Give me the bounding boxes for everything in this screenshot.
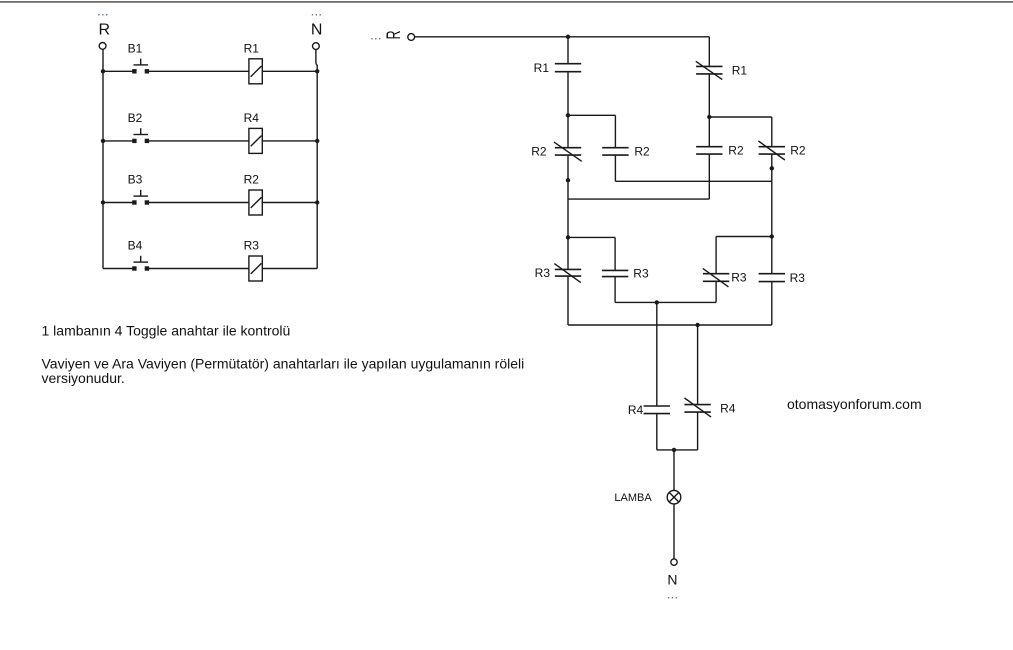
- wire D bottom: [771, 282, 773, 325]
- svg-text:R1: R1: [244, 41, 260, 55]
- junction A split: [566, 113, 570, 117]
- svg-text:R3: R3: [731, 271, 747, 285]
- junction top feeder at A: [566, 35, 570, 39]
- junction D split 2: [770, 234, 774, 238]
- contact R4 NO on E: [644, 405, 670, 407]
- contact R3 NO on B2: [602, 269, 628, 271]
- wire C2 upper: [715, 237, 717, 274]
- svg-text:R3: R3: [244, 239, 260, 253]
- wire N rail vertical: [316, 65, 318, 269]
- svg-text:R3: R3: [790, 271, 806, 285]
- svg-text:R4: R4: [720, 402, 736, 416]
- relay coil R4: [249, 128, 262, 153]
- junction C split: [707, 115, 711, 119]
- wire C lower: [708, 154, 710, 199]
- junction N rail rung 1: [315, 69, 319, 73]
- wire R rail vertical: [102, 49, 104, 268]
- wire B upper: [614, 115, 616, 147]
- wire F upper: [697, 325, 699, 405]
- wire B lower: [614, 155, 616, 181]
- junction R3 merge at E: [655, 300, 659, 304]
- relay coil R2: [249, 190, 262, 215]
- wire R3 merge horizontal: [615, 301, 716, 303]
- svg-text:R4: R4: [628, 403, 644, 417]
- svg-text:...: ...: [667, 585, 679, 601]
- terminal R (right network): [408, 34, 415, 41]
- wire rung 4 right segment: [262, 268, 317, 270]
- terminal N (left ladder): [313, 43, 320, 50]
- contact R3 NO on D: [759, 273, 785, 275]
- contact R2 NC on A: [555, 147, 581, 149]
- wire rung 2 right segment: [262, 140, 317, 142]
- wire E upper: [656, 302, 658, 406]
- cross wire A to C: [568, 198, 709, 200]
- wire lamp stem lower: [673, 504, 675, 559]
- pushbutton B3: [132, 190, 149, 205]
- wire rung 1 mid segment: [147, 70, 249, 72]
- junction R rail rung 3: [101, 200, 105, 204]
- junction A segment join: [566, 178, 570, 182]
- wire C2 lower: [715, 281, 717, 302]
- junction lamp stem: [672, 448, 676, 452]
- terminal R (left ladder): [99, 43, 106, 50]
- junction A split 2: [566, 235, 570, 239]
- wire N terminal jog: [315, 50, 317, 64]
- wire A-B split horizontal: [568, 114, 615, 116]
- wire rung 1 left segment: [103, 70, 134, 72]
- wire A upper: [567, 37, 569, 64]
- wire C-D split horizontal: [709, 116, 772, 118]
- wire D below R2: [771, 154, 773, 274]
- wire B2 lower: [614, 277, 616, 303]
- wire D-C2 split horizontal: [716, 236, 772, 238]
- svg-text:LAMBA: LAMBA: [614, 492, 652, 504]
- window top border line: [0, 1, 1013, 3]
- wire rung 4 mid segment: [147, 268, 249, 270]
- wire F lower: [697, 412, 699, 450]
- wire A below R1: [567, 72, 569, 148]
- contact R3 NC on A: [555, 268, 581, 270]
- wire rung 3 left segment: [103, 202, 134, 204]
- contact R2 NO on B: [602, 147, 628, 149]
- svg-text:1 lambanın 4 Toggle anahtar il: 1 lambanın 4 Toggle anahtar ile kontrolü: [42, 322, 291, 338]
- wire A-B2 split horizontal: [568, 236, 615, 238]
- svg-text:Vaviyen ve Ara Vaviyen (Permüt: Vaviyen ve Ara Vaviyen (Permütatör) anah…: [42, 355, 525, 371]
- wire rung 2 left segment: [103, 140, 134, 142]
- wire rung 4 left segment: [103, 268, 134, 270]
- svg-text:otomasyonforum.com: otomasyonforum.com: [787, 396, 922, 412]
- svg-text:R2: R2: [244, 173, 260, 187]
- wire rung 3 mid segment: [147, 202, 249, 204]
- wire B2 upper: [614, 237, 616, 270]
- junction R rail rung 1: [101, 69, 105, 73]
- svg-text:N: N: [311, 22, 323, 39]
- svg-text:B4: B4: [128, 239, 143, 253]
- svg-text:B1: B1: [128, 41, 143, 55]
- junction bottom rail at F: [695, 323, 699, 327]
- contact R2 NC on D: [759, 146, 785, 148]
- cross wire B to D: [615, 180, 771, 182]
- wire rung 1 right segment: [262, 70, 317, 72]
- relay coil R1: [249, 59, 262, 84]
- svg-text:...: ...: [311, 3, 323, 19]
- svg-text:R: R: [99, 22, 111, 39]
- svg-text:R1: R1: [534, 61, 550, 75]
- junction N rail rung 3: [315, 200, 319, 204]
- wire A below R2: [567, 155, 569, 269]
- contact R4 NC on F: [684, 404, 710, 406]
- svg-text:R3: R3: [633, 267, 649, 281]
- svg-text:R2: R2: [790, 144, 806, 158]
- svg-text:R: R: [383, 30, 405, 39]
- svg-text:R2: R2: [634, 145, 650, 159]
- svg-text:R1: R1: [732, 63, 748, 77]
- svg-text:B2: B2: [128, 111, 143, 125]
- wire C upper: [708, 37, 710, 67]
- svg-text:R4: R4: [244, 111, 260, 125]
- wire C below R1: [708, 74, 710, 147]
- wire bottom rail: [568, 324, 772, 326]
- svg-text:...: ...: [370, 26, 382, 42]
- svg-text:B3: B3: [128, 173, 143, 187]
- junction D segment join: [770, 166, 774, 170]
- contact R3 NC on C2: [703, 273, 729, 275]
- svg-text:R2: R2: [531, 145, 547, 159]
- pushbutton B2: [132, 128, 149, 143]
- lamp LAMBA symbol: [667, 490, 681, 504]
- relay coil R3: [249, 256, 262, 281]
- wire R4 merge horizontal: [657, 449, 698, 451]
- wire E lower: [656, 414, 658, 450]
- junction N rail rung 2: [315, 139, 319, 143]
- wire rung 3 right segment: [262, 202, 317, 204]
- contact R2 NO on C: [696, 146, 722, 148]
- terminal N (right network): [671, 559, 677, 565]
- wire D upper: [771, 117, 773, 147]
- wire rung 2 mid segment: [147, 140, 249, 142]
- contact R1 NO on A: [555, 63, 581, 65]
- svg-text:R3: R3: [535, 266, 551, 280]
- svg-text:...: ...: [97, 3, 109, 19]
- svg-text:versiyonudur.: versiyonudur.: [42, 370, 125, 386]
- wire lamp stem upper: [673, 450, 675, 491]
- pushbutton B1: [132, 59, 149, 74]
- pushbutton B4: [132, 256, 149, 271]
- wire top feeder: [415, 36, 710, 38]
- wire A bottom: [567, 276, 569, 325]
- contact R1 NC on C: [696, 65, 722, 67]
- svg-text:R2: R2: [728, 144, 744, 158]
- junction R rail rung 2: [101, 139, 105, 143]
